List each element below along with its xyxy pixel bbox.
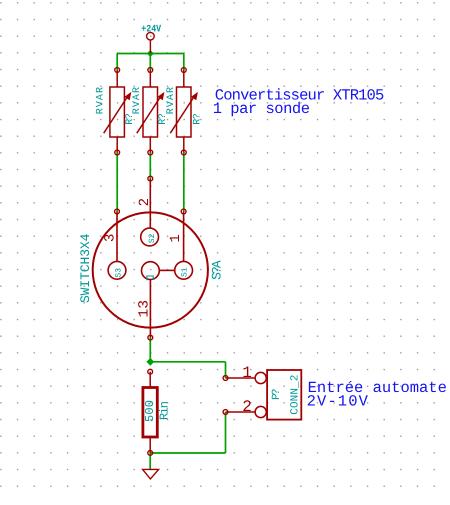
svg-text:RVAR: RVAR — [95, 87, 106, 114]
svg-text:RVAR: RVAR — [132, 87, 143, 114]
svg-text:3: 3 — [103, 234, 119, 242]
svg-text:S?A: S?A — [210, 260, 225, 280]
svg-text:RVAR: RVAR — [166, 87, 177, 114]
svg-text:SWITCH3X4: SWITCH3X4 — [78, 233, 93, 303]
svg-text:R?: R? — [158, 113, 169, 125]
svg-text:CONN_2: CONN_2 — [290, 375, 302, 415]
svg-text:R?: R? — [193, 113, 204, 125]
svg-text:S1: S1 — [181, 267, 190, 277]
svg-text:R?: R? — [125, 113, 136, 125]
svg-text:1: 1 — [242, 364, 252, 382]
svg-text:+24V: +24V — [141, 25, 161, 36]
svg-text:Rin: Rin — [158, 401, 172, 420]
svg-text:2: 2 — [137, 198, 153, 206]
svg-text:1 par sonde: 1 par sonde — [213, 100, 310, 118]
svg-text:2: 2 — [242, 398, 252, 416]
svg-text:500: 500 — [143, 400, 157, 422]
svg-text:1: 1 — [168, 234, 184, 242]
svg-text:P?: P? — [271, 389, 283, 401]
svg-text:13: 13 — [136, 300, 152, 318]
svg-text:S3: S3 — [114, 268, 123, 278]
svg-text:2V-10V: 2V-10V — [307, 393, 369, 411]
svg-text:S2: S2 — [148, 233, 157, 243]
